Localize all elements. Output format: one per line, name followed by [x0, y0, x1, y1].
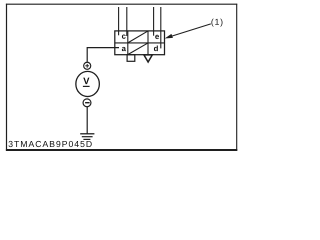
wire to terminal e — [153, 7, 155, 36]
callout arrow to block — [171, 24, 211, 37]
ground — [80, 134, 94, 140]
arrowhead — [166, 34, 173, 38]
terminal label a — [122, 47, 126, 51]
wire to terminal d — [160, 7, 162, 48]
minus sign — [85, 102, 90, 104]
block vertical divider left — [127, 31, 129, 55]
border frame — [6, 4, 237, 151]
connector index tab below block — [127, 55, 135, 62]
wire from minus terminal to ground — [86, 107, 88, 134]
connector orientation triangle below block — [144, 55, 152, 62]
terminal label d — [154, 45, 158, 51]
diagonal in upper middle cell — [128, 31, 147, 42]
minus terminal circle — [83, 99, 91, 107]
figure code 3TMACAB9P045D — [9, 141, 92, 147]
block middle horizontal divider — [115, 42, 165, 44]
wire to terminal a (top) — [126, 7, 128, 36]
voltmeter body — [76, 71, 100, 96]
voltmeter V underline — [83, 85, 90, 87]
wire to terminal c — [118, 7, 120, 35]
wire from voltmeter plus terminal to terminal a — [87, 48, 119, 62]
callout label (1) — [211, 19, 222, 27]
voltmeter V letter — [83, 78, 89, 84]
diagonal in lower middle cell — [128, 43, 147, 54]
plus sign — [85, 64, 89, 68]
plus terminal circle — [84, 62, 91, 69]
connector block (1) outline — [115, 31, 165, 55]
terminal label e — [155, 35, 159, 39]
terminal label c — [122, 35, 126, 39]
block vertical divider right — [147, 31, 149, 55]
